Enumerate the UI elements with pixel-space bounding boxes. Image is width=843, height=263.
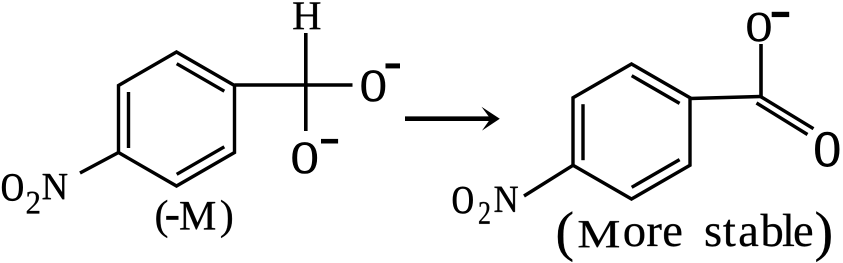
bond ring1 to central carbon and on to O- (horizontal): [235, 83, 353, 86]
bond N-ring2: [524, 165, 573, 196]
label O2N left: subscript 2: [27, 192, 39, 214]
bond C-O down (vertical): [304, 85, 308, 131]
bond C-O- (vertical up): [759, 44, 763, 98]
bond C=O line 1: [761, 97, 814, 129]
label O2N left: O: [2, 174, 22, 201]
caption (More stable): stable: [706, 214, 812, 247]
label O- top: O: [748, 13, 771, 41]
arrow head: [482, 107, 500, 131]
minus of right O: [386, 63, 401, 68]
label O2N right: N: [495, 187, 518, 212]
caption (-M): close paren: [221, 200, 232, 238]
minus of lower O: [321, 139, 338, 144]
caption (More stable): close paren: [816, 211, 830, 261]
ring 1 inner double bond (top-right edge): [177, 64, 225, 91]
bond C-H (vertical): [304, 33, 308, 85]
bond N-ring1: [80, 153, 119, 174]
caption (More stable): open paren: [558, 211, 572, 261]
caption (More stable): M: [579, 221, 619, 247]
caption (-M): [156, 200, 167, 238]
bond C=O line 2: [757, 103, 808, 135]
arrow shaft: [405, 116, 491, 121]
benzene ring 2 (right) outline: [573, 64, 690, 199]
ring 2 inner double bond (left edge): [581, 104, 584, 160]
label O2N right: O: [453, 187, 473, 214]
caption (-M): hyphen: [166, 216, 178, 220]
caption (-M): M: [180, 202, 215, 230]
label O (right of C): [362, 71, 385, 102]
bond ring2 to carboxyl carbon: [690, 97, 761, 99]
ring 1 inner double bond (left edge): [127, 92, 130, 148]
minus of top O: [772, 12, 790, 17]
label O (carbonyl): [816, 132, 839, 166]
caption (More stable): ore: [625, 224, 682, 246]
label O2N right: subscript 2: [479, 202, 489, 224]
benzene ring 1 (left) outline: [119, 52, 235, 186]
ring 2 inner double bond (bottom-right edge): [632, 160, 680, 188]
ring 1 inner double bond (bottom-right edge): [177, 147, 225, 175]
label H: [293, 2, 320, 29]
label O (below C): [293, 143, 317, 174]
label O2N left: N: [43, 174, 68, 199]
ring 2 inner double bond (top-right edge): [632, 76, 680, 104]
